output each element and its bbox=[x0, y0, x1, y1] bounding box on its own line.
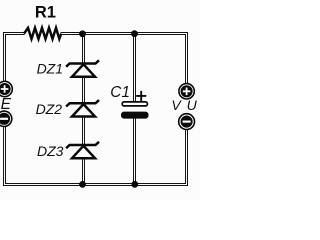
capacitor C1 bbox=[121, 102, 149, 119]
wire top rail from R1 to node A bbox=[61, 33, 84, 35]
wire top-right segment (node B to +U terminal) bbox=[134, 33, 188, 85]
wire zener branch: DZ2 anode to DZ3 cathode bbox=[83, 117, 85, 144]
wire top rail from node A to node B bbox=[82, 33, 135, 35]
svg-text:DZ1: DZ1 bbox=[37, 60, 63, 76]
terminal E plus bbox=[0, 81, 12, 96]
node C junction dot bbox=[79, 181, 86, 188]
terminal E minus bbox=[0, 111, 12, 126]
wire bottom rail node D to node C bbox=[82, 184, 135, 186]
svg-text:R1: R1 bbox=[35, 4, 56, 22]
zener diode DZ3 bbox=[66, 142, 99, 158]
wire zener branch: DZ1 anode to DZ2 cathode bbox=[83, 77, 85, 103]
terminal U minus bbox=[179, 114, 195, 130]
wire zener branch: DZ3 anode down to node C bbox=[83, 159, 85, 184]
wire bottom-left segment (node C to -E terminal) bbox=[4, 126, 84, 185]
svg-text:DZ3: DZ3 bbox=[37, 143, 64, 159]
terminal U plus bbox=[179, 84, 194, 99]
zener diode DZ2 bbox=[66, 100, 99, 116]
zener diode DZ1 bbox=[66, 60, 99, 76]
resistor R1 bbox=[24, 28, 61, 39]
wire zener branch: node A down to DZ1 cathode bbox=[83, 35, 85, 64]
node A junction dot bbox=[79, 30, 86, 37]
wire top-left segment (from +E terminal up and along top rail to R1) bbox=[4, 33, 25, 83]
wire capacitor branch: C1 bottom plate down to node D bbox=[134, 118, 136, 184]
svg-text:C1: C1 bbox=[110, 84, 130, 101]
C1 polarity plus mark bbox=[136, 91, 146, 101]
node B junction dot bbox=[131, 30, 138, 37]
wire capacitor branch: node B down to C1 top plate bbox=[134, 35, 136, 102]
svg-text:V U: V U bbox=[171, 97, 197, 113]
wire bottom-right segment (-U terminal to node D) bbox=[134, 129, 187, 186]
node D junction dot bbox=[131, 181, 138, 188]
svg-text:DZ2: DZ2 bbox=[36, 101, 63, 117]
